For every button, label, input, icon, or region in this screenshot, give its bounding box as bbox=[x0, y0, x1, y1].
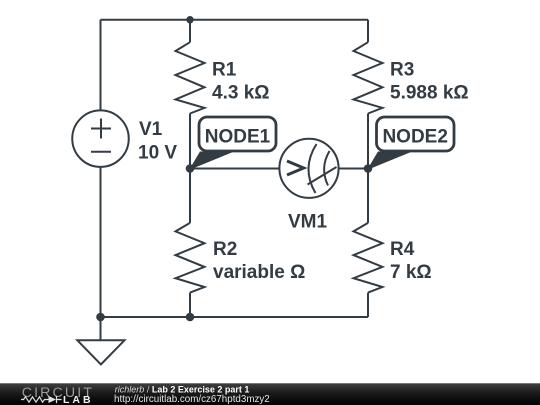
junction node bottom (R2 / bottom rail) bbox=[186, 313, 195, 322]
svg-text:R4: R4 bbox=[390, 239, 415, 260]
wire bottom rail bbox=[101, 316, 369, 318]
wire middle right (R3 to R4 through NODE2) bbox=[367, 114, 369, 223]
wire top rail bbox=[101, 19, 369, 21]
footer bar bbox=[0, 383, 540, 405]
wire R1 top lead bbox=[189, 20, 191, 43]
junction node B (NODE2) bbox=[364, 164, 373, 173]
svg-text:R2: R2 bbox=[213, 239, 237, 260]
resistor R1 bbox=[176, 42, 205, 113]
label R1 value bbox=[212, 60, 270, 104]
svg-text:NODE1: NODE1 bbox=[205, 126, 271, 147]
resistor R4 bbox=[354, 223, 383, 293]
junction node top (R1 / top rail) bbox=[186, 16, 193, 23]
svg-text:http://circuitlab.com/cz67hptd: http://circuitlab.com/cz67hptd3mzy2 bbox=[114, 394, 270, 405]
wire voltmeter right lead bbox=[339, 168, 369, 170]
svg-text:10 V: 10 V bbox=[138, 142, 177, 163]
svg-text:LAB: LAB bbox=[63, 394, 94, 405]
wire middle left (R1 to R2 through NODE1) bbox=[189, 114, 191, 223]
svg-text:7 kΩ: 7 kΩ bbox=[390, 262, 432, 283]
voltage source V1 bbox=[72, 110, 129, 167]
resistor R2 bbox=[176, 223, 205, 293]
junction node bottom left (ground) bbox=[96, 313, 105, 322]
voltmeter VM1 bbox=[279, 139, 338, 198]
svg-text:NODE2: NODE2 bbox=[382, 126, 447, 147]
svg-text:VM1: VM1 bbox=[288, 212, 328, 233]
junction node A (NODE1) bbox=[186, 164, 195, 173]
node NODE1 callout bbox=[189, 117, 276, 170]
label R4 value bbox=[390, 239, 432, 283]
wire voltmeter left lead bbox=[190, 168, 280, 170]
svg-text:V1: V1 bbox=[139, 119, 163, 140]
label R2 value bbox=[213, 239, 305, 283]
svg-text:richlerb / Lab 2 Exercise 2 pa: richlerb / Lab 2 Exercise 2 part 1 bbox=[115, 384, 250, 394]
wire R4 bottom lead bbox=[367, 293, 369, 317]
wire left branch bottom bbox=[100, 167, 102, 317]
wire R3 top lead bbox=[367, 20, 369, 43]
wire left branch top bbox=[100, 20, 102, 111]
svg-text:variable Ω: variable Ω bbox=[213, 262, 305, 283]
label R3 value bbox=[390, 60, 469, 104]
svg-text:R1: R1 bbox=[212, 60, 237, 81]
label V1 value bbox=[138, 119, 177, 163]
resistor R3 bbox=[354, 42, 383, 113]
svg-text:R3: R3 bbox=[390, 60, 414, 81]
wire R2 bottom lead bbox=[189, 293, 191, 317]
footer logo resistor-diode glyph bbox=[21, 396, 62, 403]
node NODE2 callout bbox=[367, 117, 454, 170]
ground bbox=[77, 317, 124, 365]
svg-text:5.988 kΩ: 5.988 kΩ bbox=[390, 83, 469, 104]
svg-text:4.3 kΩ: 4.3 kΩ bbox=[212, 83, 270, 104]
